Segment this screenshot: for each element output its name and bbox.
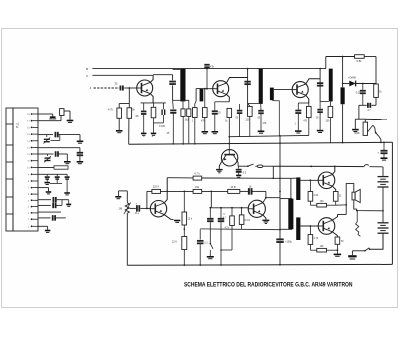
resistor 100 lower — [317, 248, 327, 252]
coupling cap 10u — [130, 207, 136, 209]
svg-text:12 k: 12 k — [188, 218, 193, 221]
trimmer CT3 — [46, 174, 48, 176]
cap emitter driver — [199, 229, 201, 239]
cap 0.05 a — [239, 104, 241, 110]
collector wire TR3 — [306, 79, 320, 84]
TR6 collector wire — [263, 198, 280, 203]
emitter resistor 470 — [307, 106, 312, 117]
bottom rail — [127, 263, 392, 266]
switch S1 — [247, 165, 249, 167]
T2 secondary bar — [270, 88, 274, 101]
transformer T1 primary — [172, 75, 174, 81]
diode OA85 wire — [343, 83, 350, 85]
ground volume — [354, 119, 356, 129]
ground output — [337, 249, 339, 251]
switch on cap a — [210, 243, 212, 245]
svg-text:2.7K: 2.7K — [314, 238, 319, 240]
speaker LS1 — [352, 192, 355, 200]
cap to driver collector — [252, 190, 266, 192]
T3 secondary top wire — [342, 57, 344, 88]
driver base wire — [211, 207, 248, 209]
stage ground rail — [229, 135, 309, 136]
switch S2 — [369, 248, 371, 250]
rail middle — [129, 142, 393, 144]
pin12 wire ground — [38, 187, 49, 189]
pin16 wire — [38, 211, 61, 213]
resistor 220k — [152, 189, 161, 193]
T3 tank cap — [317, 82, 323, 84]
right rail — [391, 142, 393, 264]
speaker riser lower — [345, 205, 347, 215]
wire osc to feed node — [263, 165, 273, 167]
lower base wire — [300, 225, 318, 227]
transistor TR5 AF — [150, 201, 166, 217]
emitter resistor lower 50 — [332, 232, 337, 237]
svg-text:0.01: 0.01 — [356, 92, 361, 94]
diode OA85 — [349, 81, 355, 87]
T1 winding outline — [173, 68, 181, 70]
pin17 wire cap C6 — [38, 217, 51, 219]
svg-text:B: B — [86, 67, 88, 71]
ground cap a — [207, 256, 214, 258]
resistor 2.7k lower — [310, 225, 312, 227]
AGC resistor 1k — [374, 84, 379, 97]
resistor 47k — [231, 207, 233, 209]
emitter cap 8uF — [143, 103, 145, 111]
resistor R4 — [182, 100, 184, 109]
transistor TR7 — [318, 172, 335, 189]
emitter wire TR3 — [306, 95, 309, 103]
pin14 wire cap C4 — [38, 199, 51, 201]
emitter resistor TR2 — [227, 108, 232, 117]
ground emitter cap TR3 — [295, 130, 302, 132]
speaker return wire — [354, 200, 383, 211]
driver transformer primary winding — [280, 199, 292, 230]
TR5 collector riser — [164, 178, 167, 203]
pin4 wire cap C1 — [38, 134, 53, 136]
emitter wire TR2 — [226, 94, 229, 101]
resistor 10k — [228, 189, 240, 193]
resistor 6.8k — [355, 55, 365, 59]
transistor TR1 — [137, 80, 153, 96]
transistor TR4 oscillator PNP — [221, 150, 237, 166]
T3 cap 0.05 — [319, 102, 321, 109]
transistor TR2 — [213, 81, 229, 97]
connector block SW1 body — [13, 108, 38, 231]
T2 tank cap — [244, 81, 250, 83]
connector block SW1 outer strip — [6, 108, 13, 231]
T1 secondary resistor — [195, 101, 196, 107]
trimmer CT5 — [66, 174, 68, 176]
collector wire TR2 — [226, 78, 247, 84]
ground C2 — [77, 161, 84, 163]
cap 35pF — [120, 86, 122, 91]
emitter rail — [141, 102, 166, 104]
TR5 emitter ground — [165, 215, 174, 220]
svg-text:22 K: 22 K — [172, 241, 177, 244]
ground C3 — [64, 161, 71, 163]
resistor 12k — [183, 191, 185, 193]
transistor TR6 driver — [248, 200, 265, 217]
osc cap 0.5 — [237, 166, 240, 168]
cap 0.015 — [162, 103, 164, 110]
pin15 wire cap C5 — [38, 204, 51, 206]
pin7 wire cap C3 — [38, 153, 54, 155]
T3 winding bottom edge — [320, 101, 329, 103]
emitter wire TR1 — [150, 94, 153, 103]
jack J1 — [38, 120, 61, 122]
resistor 15k — [193, 189, 202, 193]
svg-text:0.015: 0.015 — [159, 125, 166, 128]
T2 primary line — [247, 69, 249, 107]
T2 secondary loop — [272, 100, 280, 136]
rail 1 — [92, 68, 325, 70]
coil bead — [257, 165, 263, 168]
supply switch line to battery — [273, 165, 364, 167]
T1 secondary bar — [200, 89, 204, 102]
emitter resistor upper 51 — [332, 186, 335, 191]
svg-text:500k: 500k — [354, 132, 360, 135]
wire to volume pot — [358, 105, 360, 119]
emitter bypass line — [200, 228, 280, 231]
svg-text:SCHEMA ELETTRICO DEL RADIORICE: SCHEMA ELETTRICO DEL RADIORICEVITORE G.B… — [184, 282, 353, 289]
transistor TR8 — [318, 218, 335, 235]
T1 secondary winding line — [195, 89, 197, 102]
resistor 100 upper — [317, 203, 327, 207]
pot bottom long wire — [126, 213, 128, 265]
battery B1 — [378, 176, 389, 178]
ground switch — [351, 251, 353, 255]
svg-text:47p: 47p — [210, 66, 215, 69]
svg-text:10 µ: 10 µ — [135, 213, 140, 215]
resistor R5 — [187, 109, 191, 117]
speaker feed loop — [346, 184, 354, 205]
series cap 4.7 — [372, 104, 377, 106]
svg-text:2.2K: 2.2K — [314, 195, 319, 197]
ground filter cap — [381, 157, 388, 159]
junctions bottom rail — [183, 264, 185, 266]
svg-text:+100µ: +100µ — [285, 240, 293, 243]
svg-text:1M: 1M — [119, 207, 123, 211]
input wire — [94, 87, 120, 89]
long vertical to oscillator base — [228, 118, 230, 155]
ground C1 — [77, 141, 84, 143]
resistor 2.2k upper — [310, 179, 312, 181]
svg-text:4.7k: 4.7k — [108, 108, 114, 112]
jack contacts speaker — [356, 211, 361, 237]
collector wire TR1 — [150, 75, 153, 82]
junction dots rail — [172, 143, 174, 145]
bias 220k drop — [146, 208, 148, 210]
T2 core bar — [259, 69, 263, 104]
detector cap 0.01 — [362, 83, 364, 85]
cap 47p — [206, 69, 208, 89]
ground jack — [67, 120, 74, 122]
svg-text:P.U.: P.U. — [16, 122, 20, 128]
driver base drop — [210, 191, 212, 207]
base cap a — [209, 207, 211, 209]
resistor R2 bias — [127, 108, 132, 119]
volume pot 500k — [364, 119, 366, 122]
feed line to transformer — [280, 177, 291, 179]
ground TR4 emitter — [219, 162, 221, 169]
feed resistor 4.7k — [167, 177, 193, 179]
pin9 wire box — [38, 167, 54, 169]
trimmer CT2 — [45, 157, 51, 159]
TR7 collector riser — [332, 166, 334, 174]
transistor TR3 — [292, 82, 308, 98]
driver transformer feed top — [290, 178, 292, 198]
base cap b — [220, 207, 222, 209]
cap +100u — [276, 238, 283, 240]
driver transformer secondary top bar — [296, 177, 300, 200]
upper output line to speaker — [336, 204, 347, 206]
jack hook — [373, 125, 379, 136]
feed line vertical — [279, 136, 281, 241]
trimmer CT1 — [44, 138, 50, 140]
connector pins — [31, 113, 33, 115]
bias resistor stage2 b — [204, 88, 206, 90]
battery bottom to switch — [370, 233, 383, 249]
resistor 4.7k — [117, 108, 122, 118]
pin18 wire ground — [38, 225, 48, 227]
ground R1 — [116, 130, 123, 132]
pot 1M wiper — [124, 203, 131, 215]
cap 18 — [248, 188, 250, 195]
svg-text:+: + — [377, 151, 379, 155]
svg-text:4,7 k: 4,7 k — [194, 172, 200, 175]
pin10 wire trimmer row — [38, 173, 67, 175]
TR4 collector wire — [237, 162, 239, 166]
emitter resistor 1k — [151, 107, 156, 118]
trimmer CT4 — [56, 174, 58, 176]
T2 winding bottom edge — [248, 103, 259, 105]
svg-text:6.8k: 6.8k — [357, 59, 363, 63]
pot wiper arrow — [368, 125, 373, 131]
cap B5 — [260, 104, 262, 110]
volume pot 1M zigzag — [126, 191, 128, 203]
ground cap 25u — [212, 131, 219, 133]
base node drop — [128, 87, 130, 89]
svg-text:+OA85: +OA85 — [348, 76, 356, 79]
svg-text:6.2 R: 6.2 R — [245, 220, 251, 222]
T3 secondary bar — [341, 87, 345, 104]
pin6 wire electrolytic C2 — [38, 147, 80, 149]
rail left riser — [128, 143, 130, 145]
pin 1 wire to contact — [38, 113, 53, 115]
T3 core bar — [329, 69, 333, 102]
base wire TR3 — [274, 89, 293, 91]
emitter cap TR3 — [297, 103, 299, 110]
T3 resistor 330 — [329, 101, 331, 106]
battery B2 — [382, 211, 384, 222]
T2 primary lower resistor 220 — [248, 106, 253, 116]
driver transformer secondary bottom bar — [296, 217, 300, 240]
svg-text:10 B: 10 B — [230, 186, 235, 189]
emitter cap 25u — [214, 102, 216, 111]
upper base wire — [300, 179, 318, 181]
filter cap right — [383, 142, 385, 150]
feed line to vertical — [202, 177, 280, 179]
T3 primary line — [319, 69, 321, 102]
TR6 emitter ground — [263, 215, 266, 220]
svg-text:220 K: 220 K — [153, 186, 160, 189]
TR8 collector riser — [332, 215, 337, 221]
resistor 6.2k — [241, 207, 243, 209]
driver transformer core bar — [288, 199, 293, 230]
base wire TR2 — [203, 88, 212, 90]
ground pot top — [119, 190, 128, 192]
wire — [119, 103, 129, 105]
rail 2 — [92, 74, 153, 76]
rail step — [325, 57, 327, 69]
hook contact — [364, 165, 369, 167]
resistor 22k — [182, 237, 187, 250]
T3 secondary bottom wire — [342, 104, 344, 142]
transformer T1 core bar — [180, 69, 185, 102]
T1 bottom cap 25uF — [172, 100, 175, 109]
